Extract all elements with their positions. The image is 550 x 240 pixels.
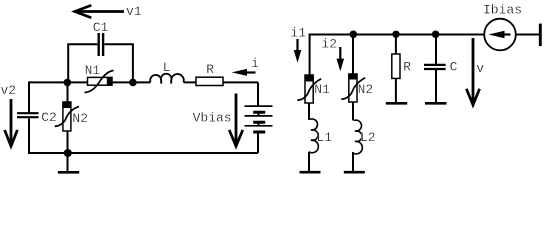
resistor N1 cap	[107, 77, 112, 85]
svg-text:N1: N1	[314, 82, 330, 97]
svg-text:v1: v1	[126, 4, 142, 19]
svg-text:N2: N2	[72, 111, 88, 126]
arrow i2	[339, 47, 341, 66]
resistor R	[196, 77, 223, 85]
ground (R)	[386, 102, 407, 105]
inductor L	[150, 74, 184, 82]
resistor N1 box	[88, 77, 113, 85]
node: junction dots right circuit	[350, 31, 358, 39]
wire: branch 1 (N1/L1)	[308, 34, 311, 172]
wire: C1 loop	[68, 44, 133, 82]
battery Vbias	[245, 106, 273, 132]
resistor R (right)	[392, 54, 400, 78]
wire: right circuit top rail	[310, 34, 485, 36]
arrow v2	[10, 99, 13, 146]
arrow i1	[296, 39, 298, 58]
inductor L2	[353, 120, 363, 154]
wire: C branch	[435, 35, 437, 103]
svg-text:i2: i2	[321, 37, 337, 52]
svg-text:i1: i1	[290, 25, 306, 40]
terminal T-bar	[539, 24, 542, 46]
ground (L1)	[300, 171, 321, 174]
ground (left circuit)	[67, 153, 69, 171]
resistor N1 box (right)	[305, 75, 313, 103]
arrow v1	[76, 10, 125, 13]
wire: branch 2 (N2/L2)	[352, 35, 354, 172]
svg-text:N1: N1	[85, 63, 101, 78]
svg-text:v2: v2	[1, 83, 17, 98]
svg-text:C1: C1	[93, 20, 109, 35]
ground (L2)	[344, 171, 365, 174]
svg-text:C: C	[450, 59, 458, 74]
resistor N2 cap (left)	[63, 102, 71, 108]
capacitor C1	[99, 33, 103, 56]
svg-text:L1: L1	[317, 130, 333, 145]
wire: left circuit left edge (C2 branch)	[28, 81, 30, 154]
node: junction dots left circuit	[64, 79, 72, 87]
capacitor C	[424, 65, 446, 69]
resistor N1 curve	[85, 71, 114, 93]
arrow Vbias	[235, 94, 238, 147]
svg-text:i: i	[251, 56, 259, 71]
ground (C)	[425, 102, 447, 105]
svg-text:R: R	[206, 62, 214, 77]
resistor N2 curve (right)	[341, 78, 365, 100]
wire: N2 branch	[67, 82, 69, 153]
resistor N2 curve (left)	[55, 106, 79, 126]
wire: R branch	[395, 35, 397, 103]
resistor N2 box (right)	[349, 74, 357, 102]
inductor L1	[309, 119, 319, 153]
svg-text:C2: C2	[41, 110, 57, 125]
svg-text:R: R	[403, 60, 411, 75]
svg-text:Vbias: Vbias	[193, 110, 232, 125]
wire: Ibias right lead	[516, 34, 539, 36]
resistor N1 curve (right)	[297, 79, 321, 101]
wire: left circuit top rail	[29, 81, 258, 83]
svg-text:N2: N2	[358, 82, 374, 97]
svg-text:Ibias: Ibias	[483, 2, 522, 17]
RIGHT CIRCUIT	[305, 34, 539, 172]
arrow inside Ibias	[502, 33, 511, 35]
svg-text:L2: L2	[360, 130, 376, 145]
capacitor C2	[17, 113, 39, 117]
svg-text:v: v	[476, 61, 484, 76]
resistor N2 box (left circuit)	[63, 102, 71, 131]
current source Ibias	[484, 19, 516, 51]
resistor N2 cap (right)	[349, 74, 357, 80]
svg-text:L: L	[163, 60, 171, 75]
battery Vbias leads	[257, 82, 260, 153]
arrow v	[472, 38, 475, 105]
resistor N1 cap (right)	[305, 75, 313, 82]
wire: left circuit bottom rail	[29, 152, 258, 154]
arrow i	[240, 71, 256, 73]
